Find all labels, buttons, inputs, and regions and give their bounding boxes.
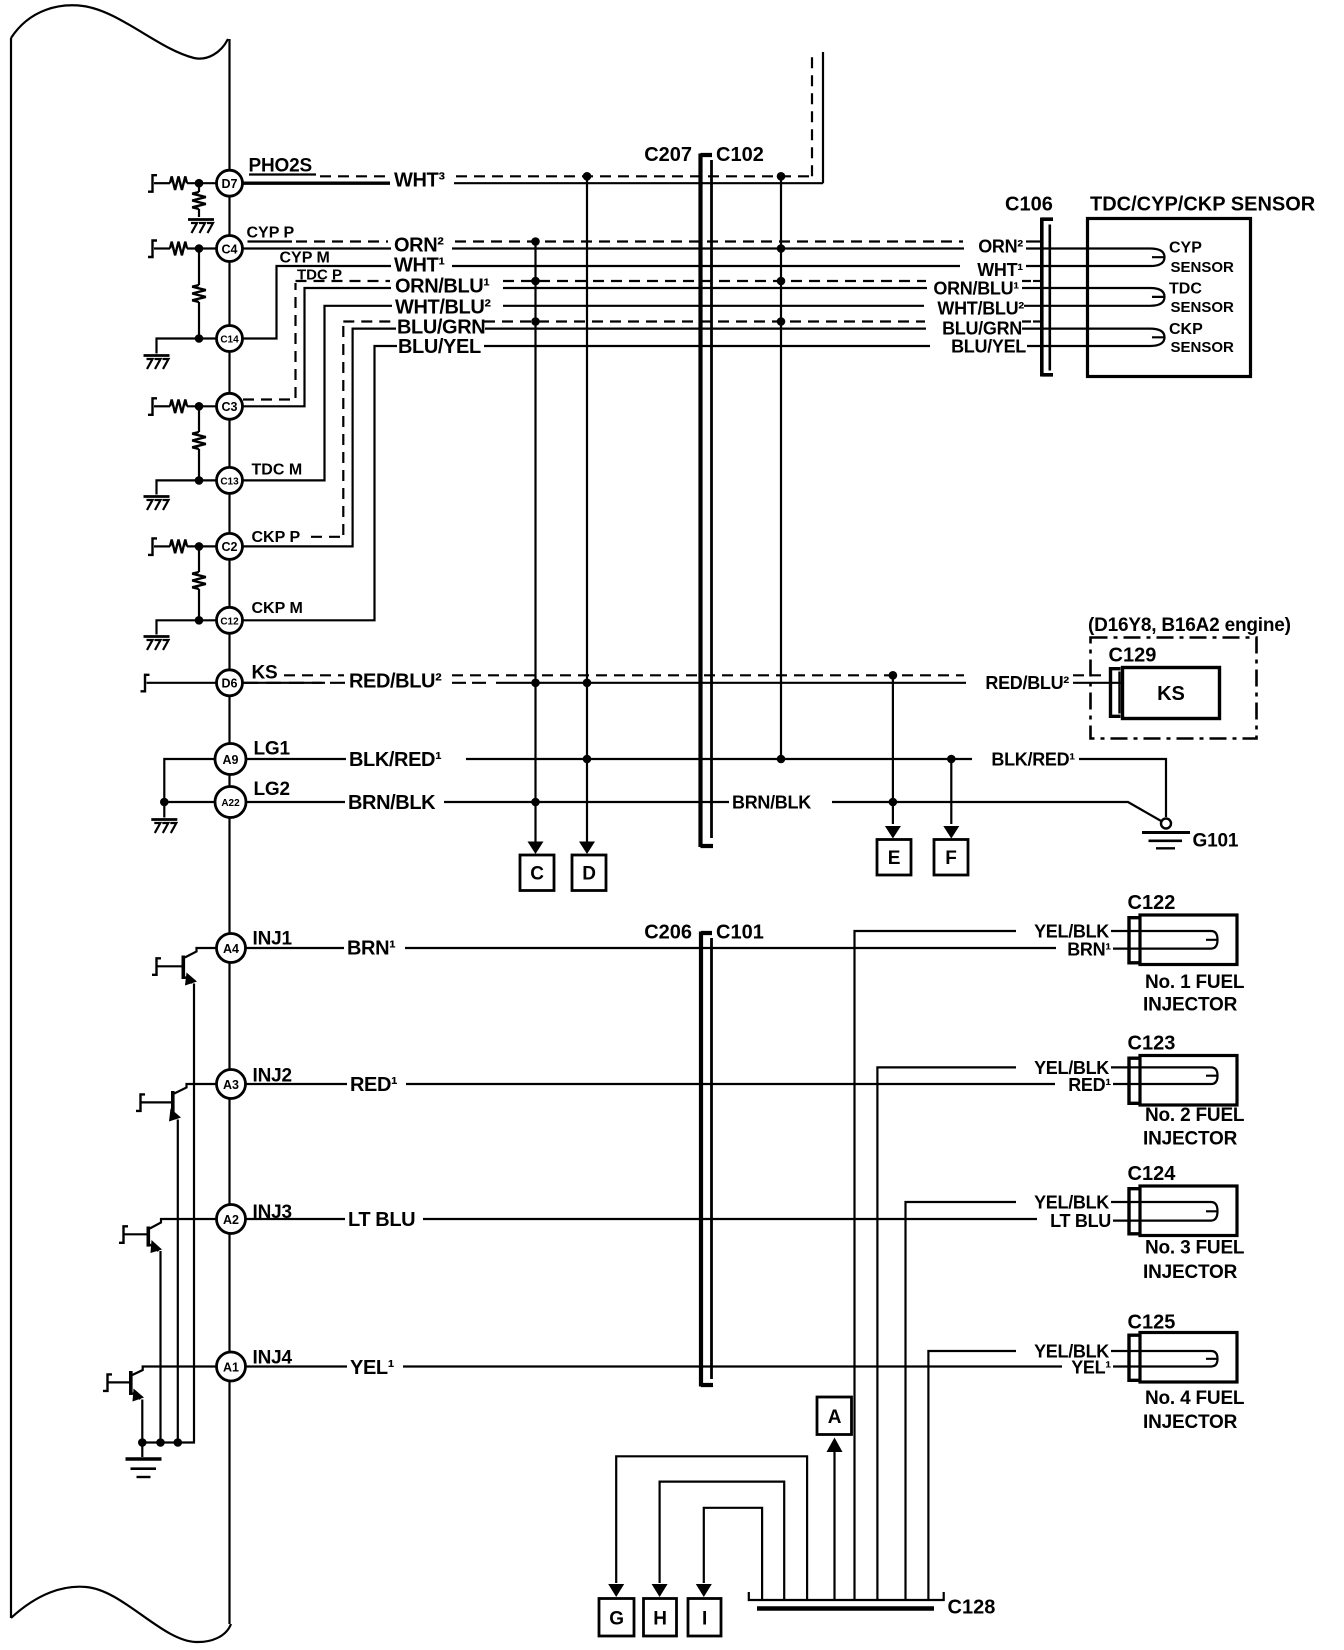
node ORN/BLU1 shield / drain	[777, 277, 786, 286]
ECU housing left border	[10, 38, 12, 1618]
arrow to F	[943, 826, 959, 839]
svg-text:BLU/GRN: BLU/GRN	[942, 319, 1022, 339]
node C14 junction	[195, 334, 204, 343]
injector no.3 coil	[1142, 1202, 1218, 1221]
svg-text:C129: C129	[1109, 645, 1157, 667]
injector no.1 box	[1140, 915, 1237, 965]
wire BLU/GRN (CKP P) shield, dashed	[311, 322, 1031, 537]
connector C207/C102 in-line	[701, 154, 714, 848]
ground (LG1/LG2)	[151, 820, 177, 834]
svg-text:LG1: LG1	[254, 739, 291, 760]
svg-text:INJECTOR: INJECTOR	[1143, 1128, 1238, 1149]
pin A1	[217, 1352, 246, 1381]
node BLK/RED1 / bus F	[947, 755, 956, 764]
svg-text:C14: C14	[220, 335, 239, 346]
pin D6	[217, 670, 243, 696]
svg-text:G101: G101	[1193, 831, 1239, 852]
pin C4 input terminal	[148, 241, 157, 258]
connector C129 bracket	[1111, 667, 1121, 718]
svg-text:CKP P: CKP P	[252, 529, 301, 546]
sensor box TDC/CYP/CKP	[1088, 219, 1251, 377]
pin D7	[217, 170, 243, 196]
svg-text:A22: A22	[221, 798, 240, 809]
svg-text:WHT³: WHT³	[394, 170, 445, 192]
wire C12 to ground	[157, 620, 217, 634]
wire D6 input	[147, 682, 217, 684]
arrow to I	[696, 1584, 712, 1597]
wire YEL/BLK injector 1	[855, 931, 1017, 1600]
svg-text:YEL/BLK: YEL/BLK	[1034, 1058, 1109, 1078]
injector no.3 box	[1140, 1186, 1237, 1236]
transistor Q2 base terminal	[136, 1094, 145, 1111]
wire A to C128	[833, 1451, 835, 1600]
wire BRN/BLK (LG2) from A22	[246, 801, 345, 803]
svg-text:C102: C102	[716, 144, 764, 166]
transistor Q2 (INJ2 driver, pin A3)	[141, 1084, 216, 1443]
wire BRN/BLK to G101	[832, 802, 1162, 822]
connector C124 bracket	[1129, 1187, 1139, 1236]
connector box G	[599, 1599, 634, 1637]
svg-text:C122: C122	[1128, 892, 1176, 914]
connector C122 bracket	[1129, 916, 1139, 965]
svg-text:TDC M: TDC M	[252, 462, 303, 479]
wire YEL1 (INJ4) from A1	[247, 1365, 348, 1367]
TDC sensor coil	[1089, 288, 1165, 306]
node C12 junction	[195, 616, 204, 625]
wire BRN1 (INJ1) from A4	[247, 947, 345, 949]
node C3 input junction	[195, 402, 204, 411]
wire ORN2 C4 to label	[243, 247, 392, 249]
svg-text:(D16Y8, B16A2 engine): (D16Y8, B16A2 engine)	[1088, 615, 1291, 636]
node BRN/BLK / bus C	[531, 798, 540, 807]
resistor R4 (C4 to C14)	[198, 249, 200, 286]
wire I to C128	[704, 1508, 762, 1600]
connector box H	[644, 1599, 677, 1637]
svg-text:WHT¹: WHT¹	[977, 260, 1023, 280]
svg-text:BRN/BLK: BRN/BLK	[348, 792, 436, 814]
wire RED/BLU2 label to KS	[452, 682, 966, 684]
wire YEL/BLK injector 2	[877, 1067, 1016, 1600]
wire WHT/BLU2 label to C106	[503, 305, 924, 307]
svg-text:YEL/BLK: YEL/BLK	[1034, 1192, 1109, 1212]
node C2 input junction	[195, 542, 204, 551]
arrow to C	[528, 842, 544, 855]
svg-text:A9: A9	[223, 753, 239, 767]
svg-text:LT BLU: LT BLU	[1050, 1211, 1111, 1231]
ECU housing torn top edge	[11, 5, 228, 58]
svg-text:H: H	[653, 1609, 667, 1630]
svg-text:A3: A3	[223, 1078, 239, 1092]
transistor Q4 base terminal	[103, 1374, 112, 1391]
svg-text:TDC/CYP/CKP SENSOR: TDC/CYP/CKP SENSOR	[1090, 194, 1316, 216]
svg-text:A: A	[828, 1407, 842, 1428]
transistor Q4 (INJ4 driver, pin A1)	[109, 1367, 216, 1443]
node RED/BLU2 shield / bus E	[889, 671, 898, 680]
svg-text:RED/BLU²: RED/BLU²	[985, 673, 1069, 693]
wire LT BLU label to injector 3	[423, 1218, 1037, 1220]
wire RED/BLU2 (KS) shield, dashed	[284, 674, 1101, 676]
svg-text:No. 4 FUEL: No. 4 FUEL	[1145, 1388, 1245, 1409]
connector box I	[688, 1599, 721, 1637]
pin A2	[217, 1205, 246, 1234]
pin name underline PHO2S	[249, 173, 316, 175]
svg-text:CYP: CYP	[1169, 240, 1202, 257]
connector box F	[934, 840, 968, 876]
emitter common bus wire	[142, 1441, 195, 1443]
shield drain bus to C box	[534, 242, 536, 844]
wire LG junction to ground	[163, 802, 165, 818]
wire to chassis ground	[141, 1443, 143, 1458]
svg-text:A4: A4	[223, 942, 239, 956]
node BLU/GRN shield / drain	[777, 317, 786, 326]
ground (D7 resistor)	[188, 220, 214, 234]
ground (C13)	[144, 497, 170, 511]
wire resistor to pin C3	[187, 405, 217, 407]
connector C206/C101 in-line	[701, 932, 713, 1387]
svg-text:INJ1: INJ1	[253, 929, 293, 950]
wire WHT1 (CYP M) from C14	[243, 266, 392, 339]
injector no.2 coil	[1142, 1067, 1218, 1084]
svg-text:I: I	[702, 1609, 707, 1630]
node: Q2 emitter junction	[174, 1438, 183, 1447]
node RED/BLU2 / bus D	[583, 679, 592, 688]
wire D7 input	[154, 182, 170, 184]
svg-text:YEL/BLK: YEL/BLK	[1034, 1341, 1109, 1361]
svg-text:C13: C13	[220, 476, 239, 487]
wire YEL/BLK injector 3	[906, 1202, 1017, 1600]
svg-text:C4: C4	[222, 242, 238, 256]
wire RED1 label to injector 2	[406, 1083, 1055, 1085]
resistor R5 (C3 pull)	[170, 400, 187, 414]
svg-text:WHT¹: WHT¹	[394, 255, 445, 277]
wire WHT/BLU2 (TDC M) from C13	[243, 306, 393, 481]
wire BRN/BLK label to C207	[444, 801, 729, 803]
CKP sensor coil	[1089, 329, 1165, 346]
ground (C12)	[144, 637, 170, 651]
pin C3	[217, 393, 243, 419]
connector C123 bracket	[1129, 1057, 1139, 1106]
pin C12	[217, 607, 243, 633]
transistor Q3 base terminal	[119, 1226, 128, 1243]
svg-text:G: G	[609, 1609, 624, 1630]
svg-text:A1: A1	[223, 1361, 239, 1375]
injector no.2 box	[1140, 1056, 1237, 1106]
node BLU/GRN shield / bus C	[531, 317, 540, 326]
svg-text:CKP M: CKP M	[252, 600, 303, 617]
shield drain bus to E box	[892, 675, 894, 824]
connector C128 bar	[749, 1592, 944, 1609]
ground G101	[1142, 819, 1190, 849]
svg-text:BLK/RED¹: BLK/RED¹	[349, 749, 442, 771]
svg-text:PHO2S: PHO2S	[249, 156, 312, 177]
pin A4	[217, 934, 246, 963]
svg-text:C128: C128	[948, 1597, 996, 1619]
wire WHT1 label to C106	[452, 265, 960, 267]
node ORN2 shield / bus C	[531, 237, 540, 246]
resistor R1 (D7 pull)	[170, 176, 187, 190]
wire A22 to ground node	[164, 801, 215, 803]
transistor Q3 (INJ3 driver, pin A2)	[125, 1219, 216, 1443]
pin A3	[217, 1070, 246, 1099]
injector no.4 coil	[1142, 1351, 1218, 1367]
connector box A	[817, 1397, 852, 1435]
wire ORN2 label to C106	[452, 247, 964, 249]
svg-text:LG2: LG2	[254, 779, 290, 800]
svg-text:ORN²: ORN²	[978, 237, 1023, 257]
svg-text:CKP: CKP	[1169, 321, 1203, 338]
ground (earth, transistor commons)	[126, 1459, 162, 1477]
svg-text:C101: C101	[716, 922, 764, 944]
node ORN2 / drain	[777, 244, 786, 253]
svg-text:C: C	[530, 864, 544, 885]
wire WHT3 (PHO2S) shield, dashed	[320, 175, 810, 177]
wire BLU/GRN from C2	[243, 329, 397, 547]
wire WHT3 (PHO2S) D7 to label	[243, 181, 391, 184]
svg-text:WHT/BLU²: WHT/BLU²	[395, 296, 491, 318]
wire C2 input	[154, 545, 170, 547]
KS option dash-dot outline	[1091, 638, 1257, 739]
pin C14	[217, 326, 243, 352]
svg-text:INJECTOR: INJECTOR	[1143, 1412, 1238, 1433]
pin C2 input terminal	[148, 538, 157, 555]
svg-text:SENSOR: SENSOR	[1171, 339, 1235, 356]
connector box D	[572, 855, 606, 891]
wire to F box	[950, 759, 952, 824]
node BLK/RED1 / bus D	[583, 755, 592, 764]
svg-text:YEL¹: YEL¹	[350, 1357, 395, 1379]
pin D7 input terminal	[148, 175, 157, 192]
injector no.1 coil	[1142, 931, 1218, 949]
pin A22	[215, 787, 246, 818]
wire C13 to ground	[157, 480, 217, 494]
transistor Q1 (INJ1 driver, pin A4)	[157, 948, 216, 1443]
wire ORN/BLU1 label to C106	[503, 287, 927, 289]
wire LT BLU (INJ3) from A2	[247, 1218, 346, 1220]
pin C13	[217, 467, 243, 493]
node WHT3 shield / bus D	[583, 172, 592, 181]
pin C2	[217, 533, 243, 559]
svg-text:SENSOR: SENSOR	[1171, 299, 1235, 316]
arrow to E	[885, 826, 901, 839]
svg-text:C3: C3	[222, 400, 238, 414]
shield drain bus to D box	[586, 176, 588, 843]
svg-text:C123: C123	[1128, 1032, 1176, 1054]
svg-text:BRN/BLK: BRN/BLK	[732, 792, 811, 812]
node BRN/BLK / bus E	[889, 798, 898, 807]
svg-text:C12: C12	[220, 616, 239, 627]
connector box C	[520, 855, 554, 891]
svg-text:BLU/YEL: BLU/YEL	[398, 336, 481, 358]
svg-text:ORN²: ORN²	[394, 235, 444, 257]
svg-text:D6: D6	[222, 677, 238, 691]
node ORN/BLU1 shield / bus C	[531, 277, 540, 286]
node: Q3 emitter junction	[156, 1438, 165, 1447]
svg-text:RED¹: RED¹	[350, 1074, 398, 1096]
wire RED1 (INJ2) from A3	[247, 1083, 348, 1085]
svg-text:ORN/BLU¹: ORN/BLU¹	[395, 276, 490, 298]
svg-text:CYP M: CYP M	[280, 250, 330, 267]
svg-text:C2: C2	[222, 540, 238, 554]
arrow to H	[652, 1584, 668, 1597]
wire YEL1 label to injector 4	[403, 1365, 1062, 1367]
svg-text:No. 1 FUEL: No. 1 FUEL	[1145, 972, 1245, 993]
wire resistor to pin C4	[187, 247, 217, 249]
svg-text:C124: C124	[1128, 1163, 1177, 1185]
wire BLU/YEL label to C106	[484, 345, 930, 347]
wire BLK/RED1 (LG1) from A9	[246, 758, 346, 760]
svg-text:BRN¹: BRN¹	[347, 938, 396, 960]
node C4 input junction	[195, 244, 204, 253]
connector box E	[877, 840, 911, 876]
node WHT3 shield / drain	[777, 172, 786, 181]
svg-text:INJECTOR: INJECTOR	[1143, 995, 1238, 1016]
svg-text:C206: C206	[644, 922, 692, 944]
pin C4	[217, 236, 243, 262]
ECU pin rail (vertical bus of pin circles)	[228, 39, 230, 1624]
node C13 junction	[195, 476, 204, 485]
svg-text:C125: C125	[1128, 1311, 1176, 1333]
wire RED/BLU2 from D6	[243, 682, 345, 684]
svg-text:BLU/YEL: BLU/YEL	[951, 337, 1026, 357]
svg-text:BRN¹: BRN¹	[1067, 940, 1111, 960]
resistor R8 (C2 to C12)	[198, 546, 200, 572]
arrow to A (upward)	[827, 1438, 843, 1453]
svg-text:D: D	[582, 864, 596, 885]
wire BRN1 label to injector 1	[405, 947, 1056, 949]
wire resistor to pin D7	[187, 182, 217, 184]
wire WHT3 label to riser	[454, 182, 823, 184]
wire H to C128	[660, 1482, 785, 1600]
svg-text:RED/BLU²: RED/BLU²	[349, 671, 442, 693]
svg-text:KS: KS	[252, 663, 278, 684]
shield drain wire (to LG1)	[780, 176, 782, 759]
resistor R2 (D7 to ground)	[198, 183, 200, 192]
wire BLU/YEL (CKP M) from C12	[243, 346, 398, 620]
connector C106 bracket	[1042, 218, 1053, 377]
CYP sensor coil	[1089, 249, 1165, 267]
node RED/BLU2 / bus C	[531, 679, 540, 688]
svg-text:F: F	[945, 848, 956, 869]
svg-text:KS: KS	[1157, 683, 1185, 705]
node: Q4 emitter junction	[138, 1438, 147, 1447]
svg-text:No. 2 FUEL: No. 2 FUEL	[1145, 1105, 1245, 1126]
svg-text:C106: C106	[1005, 194, 1053, 216]
connector C125 bracket	[1129, 1334, 1139, 1383]
wire ORN2 (CYP P) shield, dashed	[248, 240, 293, 242]
ground (C14)	[144, 356, 170, 370]
wire YEL/BLK injector 4	[928, 1351, 1016, 1600]
wire WHT3 shield riser to top, dashed	[811, 55, 813, 176]
svg-text:D7: D7	[222, 177, 238, 191]
node LG ground junction	[160, 798, 169, 807]
svg-text:A2: A2	[223, 1213, 239, 1227]
ECU housing torn bottom edge	[11, 1587, 231, 1642]
wire ORN/BLU1 from C3	[243, 288, 392, 406]
svg-text:YEL/BLK: YEL/BLK	[1034, 921, 1109, 941]
node BLK/RED1 / drain	[777, 755, 786, 764]
wire C3 input	[154, 405, 170, 407]
arrow to G	[608, 1584, 624, 1597]
node D7 input junction	[195, 179, 204, 188]
pin C3 input terminal	[148, 398, 157, 415]
svg-text:BLK/RED¹: BLK/RED¹	[991, 749, 1075, 769]
wire WHT3 riser to top	[822, 52, 824, 183]
svg-text:ORN/BLU¹: ORN/BLU¹	[933, 279, 1019, 299]
resistor R6 (C3 to C13)	[198, 406, 200, 432]
svg-text:INJ4: INJ4	[253, 1347, 293, 1368]
arrow to D	[579, 842, 595, 855]
wire G to C128	[616, 1456, 807, 1600]
svg-text:SENSOR: SENSOR	[1171, 259, 1235, 276]
wire BLU/GRN label to C106	[485, 328, 926, 330]
svg-text:CYP P: CYP P	[247, 225, 295, 242]
pin D6 input terminal	[141, 675, 150, 692]
resistor R7 (C2 pull)	[170, 540, 187, 554]
injector no.4 box	[1140, 1333, 1237, 1383]
svg-text:TDC: TDC	[1169, 281, 1202, 298]
svg-text:WHT/BLU²: WHT/BLU²	[937, 299, 1024, 319]
wire ORN/BLU1 (TDC P) shield, dashed	[243, 281, 1031, 400]
svg-text:E: E	[888, 848, 900, 869]
svg-text:No. 3 FUEL: No. 3 FUEL	[1145, 1238, 1245, 1259]
pin A9	[215, 744, 246, 775]
resistor R3 (C4 pull)	[170, 242, 187, 256]
transistor Q1 base terminal	[152, 958, 161, 975]
wire resistor to pin C2	[187, 545, 217, 547]
svg-text:INJECTOR: INJECTOR	[1143, 1262, 1238, 1283]
knock sensor KS box	[1123, 668, 1220, 719]
svg-text:C207: C207	[644, 144, 692, 166]
wire A9 to ground node	[164, 759, 215, 802]
svg-text:LT BLU: LT BLU	[348, 1209, 415, 1231]
wire C4 input	[154, 247, 170, 249]
wire BLK/RED1 label to G101	[466, 758, 972, 760]
wire C14 to ground	[157, 339, 217, 354]
